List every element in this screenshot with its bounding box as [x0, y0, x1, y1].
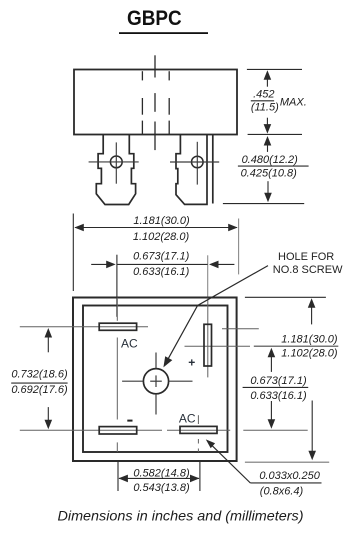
- top view inner square: [83, 306, 228, 453]
- left terminal hole: [110, 156, 122, 168]
- svg-text:NO.8 SCREW: NO.8 SCREW: [273, 264, 343, 276]
- extension line pad top right: [222, 328, 259, 330]
- pad AC top-left: [99, 323, 136, 330]
- svg-text:HOLE FOR: HOLE FOR: [278, 251, 334, 263]
- svg-text:+: +: [188, 355, 195, 369]
- svg-text:0.033x0.250: 0.033x0.250: [259, 470, 320, 482]
- svg-text:0.425(10.8): 0.425(10.8): [241, 168, 298, 180]
- hidden hole side (dashed right): [168, 71, 170, 134]
- leader 0.033x0.250 slot: [211, 444, 251, 483]
- pad minus bottom-left: [99, 427, 137, 434]
- dim 1.181(30.0)/1.102(28.0) width: [72, 214, 74, 292]
- side view body: [74, 70, 237, 135]
- svg-text:0.692(17.6): 0.692(17.6): [11, 384, 68, 396]
- svg-text:0.633(16.1): 0.633(16.1): [133, 266, 190, 278]
- pad plus right: [204, 324, 212, 366]
- svg-text:1.181(30.0): 1.181(30.0): [133, 215, 190, 227]
- svg-text:0.582(14.8): 0.582(14.8): [133, 467, 190, 479]
- dim .452(11.5) MAX: [247, 69, 302, 126]
- svg-text:AC: AC: [179, 412, 196, 426]
- bottom dim 0.582(14.8)/0.543(13.8): [118, 462, 200, 491]
- centerline plus pad horizontal: [185, 345, 251, 347]
- svg-text:Dimensions in inches and (mill: Dimensions in inches and (millimeters): [58, 508, 304, 524]
- centerline left column: [116, 298, 118, 452]
- centerline top pads row: [20, 326, 148, 328]
- dim 0.480(12.2)/0.425(10.8): [248, 133, 302, 135]
- svg-text:(0.8x6.4): (0.8x6.4): [260, 485, 304, 497]
- svg-text:MAX.: MAX.: [280, 96, 307, 108]
- centerline bottom pads row: [20, 429, 308, 431]
- svg-text:0.673(17.1): 0.673(17.1): [133, 250, 190, 262]
- left terminal (side view): [96, 135, 135, 205]
- svg-text:(11.5): (11.5): [251, 102, 279, 114]
- right terminal crosshair: [170, 142, 219, 185]
- svg-text:.452: .452: [253, 89, 274, 101]
- center hole circle: [143, 369, 168, 394]
- svg-text:0.633(16.1): 0.633(16.1): [250, 390, 307, 402]
- svg-text:1.181(30.0): 1.181(30.0): [281, 333, 338, 345]
- hidden hole side (dashed left): [141, 71, 143, 134]
- centerline bottom-right column: [197, 415, 199, 452]
- dim 0.673(17.1)/0.633(16.1) width: [116, 255, 118, 317]
- svg-text:GBPC: GBPC: [127, 6, 182, 30]
- right dim 1.181(30.0)/1.102(28.0) vertical: [245, 296, 326, 298]
- svg-text:0.732(18.6): 0.732(18.6): [11, 368, 68, 380]
- label minus: [127, 420, 132, 422]
- top view outer square: [73, 298, 237, 462]
- bottom ext line right: [245, 461, 329, 463]
- right terminal (side view): [176, 135, 207, 205]
- title GBPC: [119, 6, 208, 34]
- svg-text:0.480(12.2): 0.480(12.2): [242, 154, 299, 166]
- svg-text:AC: AC: [121, 337, 138, 351]
- right dim 0.673(17.1)/0.633(16.1) vertical: [270, 357, 272, 372]
- dim 0.732(18.6)/0.692(17.6) left: [47, 338, 49, 422]
- svg-text:1.102(28.0): 1.102(28.0): [281, 348, 338, 360]
- svg-text:0.543(13.8): 0.543(13.8): [133, 482, 190, 494]
- svg-text:0.673(17.1): 0.673(17.1): [250, 375, 307, 387]
- left terminal crosshair: [89, 142, 139, 183]
- right terminal tab edge: [212, 135, 214, 204]
- svg-text:1.102(28.0): 1.102(28.0): [133, 231, 190, 243]
- pad AC bottom-right: [180, 426, 217, 433]
- leader hole for no.8 screw: [166, 266, 268, 364]
- centerline of hole (side view): [154, 55, 156, 150]
- centerline plus pad vertical: [207, 298, 209, 378]
- center hole crosshair: [122, 353, 192, 415]
- right terminal hole: [192, 156, 204, 168]
